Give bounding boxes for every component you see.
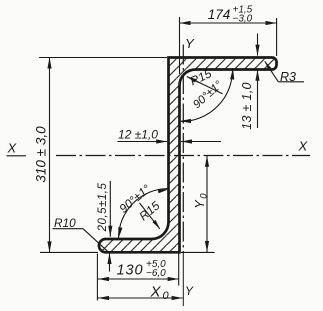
profile cross-section outline with hatching [99, 58, 277, 253]
svg-text:20,5±1,5: 20,5±1,5 [97, 183, 109, 233]
svg-text:Y: Y [185, 284, 194, 298]
dimension 130 dimension line [98, 278, 179, 280]
dimension 310±3,0 overall height, extension lines [39, 57, 167, 59]
dimension 130 +5,0/-6,0 bottom flange length, extension lines [96, 254, 98, 301]
svg-text:130: 130 [117, 263, 144, 279]
leader R10 bottom flange end radius [53, 228, 84, 230]
svg-text:−6,0: −6,0 [146, 268, 166, 279]
angle arc 90°±1° bottom inner corner [119, 189, 169, 239]
svg-text:−3,0: −3,0 [233, 14, 253, 25]
leader R15 bottom fillet [140, 203, 160, 229]
axis Y (vertical dash-dot centreline) [182, 45, 184, 253]
dimension 12±1,0 web thickness [118, 141, 168, 143]
svg-text:13 ± 1,0: 13 ± 1,0 [240, 82, 254, 130]
leader R15 top fillet [187, 77, 223, 94]
angle arc 90°+1° top inner corner [181, 68, 233, 121]
svg-text:310 ± 3,0: 310 ± 3,0 [34, 126, 49, 183]
svg-text:174: 174 [208, 7, 231, 22]
dimension 20,5±1,5 bottom flange thickness [109, 181, 111, 237]
dimension Y0 dimension line [206, 156, 208, 252]
svg-text:12 ±1,0: 12 ±1,0 [118, 128, 158, 142]
dimension 310±3,0 dimension line [49, 58, 51, 253]
dimension 174 +1,5/-3,0 top flange length, extension lines [179, 17, 181, 74]
svg-text:R3: R3 [280, 70, 296, 84]
axis X-X (horizontal dash-dot centreline) [7, 155, 27, 157]
dimension 174 dimension line [180, 22, 277, 24]
dimension Y0 (centroid distance), extension line [181, 251, 215, 253]
leader R3 (flange end radius) [265, 61, 279, 82]
dimension 13±1,0 top flange thickness [257, 34, 259, 56]
dimension X0 (centroid distance), dimension line [98, 297, 183, 299]
svg-text:R10: R10 [54, 216, 76, 230]
svg-text:X: X [298, 139, 309, 154]
svg-text:X: X [7, 141, 18, 156]
svg-text:Y: Y [185, 36, 195, 51]
